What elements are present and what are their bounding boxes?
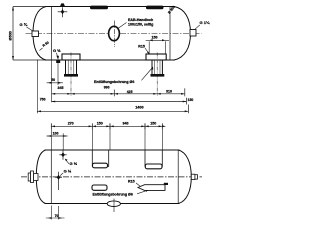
tangent line extension down — [51, 60, 53, 102]
foot slot frame 1 — [92, 150, 108, 166]
foot 2 centerline extension to dim row B — [156, 53, 158, 96]
leader to foot 2 vent hole — [142, 68, 153, 81]
foot 1 centerline extended to dim row B — [70, 53, 72, 96]
foot 1 leg — [66, 60, 77, 74]
svg-text:750: 750 — [40, 97, 46, 101]
svg-text:G 1¼: G 1¼ — [200, 20, 210, 25]
dia500 arrow top — [12, 7, 14, 11]
lower right stub fitting — [191, 174, 197, 179]
leader to right fitting — [195, 25, 200, 29]
leader — [60, 173, 63, 176]
foot 2 base plate — [151, 74, 165, 77]
lower top nozzle diamond — [61, 152, 65, 157]
drain channel slot (pointed) — [138, 185, 165, 191]
svg-text:R15: R15 — [138, 44, 145, 48]
lower top nozzle cross — [59, 150, 66, 160]
lower left tangent line — [50, 150, 52, 204]
svg-text:345: 345 — [58, 86, 64, 90]
dim 150 arrow right — [162, 39, 166, 41]
left fitting socket — [32, 31, 39, 37]
dim row D: 1400 — [37, 110, 188, 112]
svg-text:Ø500: Ø500 — [8, 31, 12, 40]
svg-text:150: 150 — [97, 121, 103, 125]
arrowhead vent hole leader — [151, 67, 153, 70]
dim row B — [52, 93, 185, 95]
svg-text:150: 150 — [188, 98, 194, 102]
foot bolt slot 3 (lower left) — [92, 185, 107, 190]
arrowhead R15 leader — [147, 52, 150, 55]
drain boss extension line — [57, 63, 59, 85]
bottom boss ellipse — [107, 201, 120, 207]
foot 1 base plate — [64, 74, 78, 77]
top nozzle axis cross — [58, 7, 68, 17]
leader — [65, 159, 69, 164]
svg-text:340: 340 — [123, 121, 129, 125]
leader left knuckle — [40, 48, 43, 51]
svg-text:G ½: G ½ — [53, 48, 61, 53]
svg-text:990: 990 — [104, 86, 110, 90]
foot slot frame 2 — [145, 150, 162, 166]
leader — [136, 183, 140, 186]
small mark at drain slot end — [164, 183, 168, 185]
arrowhead to drain boss — [56, 56, 59, 60]
svg-text:G ½: G ½ — [70, 161, 78, 166]
svg-text:R15: R15 — [128, 180, 135, 184]
leader R15 to pad corner — [145, 48, 149, 53]
lower center nozzle diamond — [57, 175, 61, 180]
arrowhead G1/2 leader — [65, 159, 68, 162]
svg-text:425: 425 — [127, 90, 133, 94]
leader handhole label — [118, 23, 127, 29]
svg-text:150: 150 — [150, 121, 156, 125]
lower center nozzle cross — [55, 172, 62, 190]
svg-text:Entlüftungsbohrung Ø6: Entlüftungsbohrung Ø6 — [94, 80, 134, 84]
lifting lug pad 1 (filled) — [90, 6, 108, 10]
foot bolt slot 1 — [93, 163, 108, 168]
svg-text:310: 310 — [166, 89, 172, 93]
lower centerline — [21, 176, 202, 178]
left dished head — [33, 7, 46, 61]
right dished head — [174, 7, 191, 61]
right fitting socket — [190, 30, 196, 37]
dim 150 over foot 2 — [146, 40, 169, 53]
tank shell top line — [45, 6, 175, 8]
handhole vertical centerline — [113, 21, 115, 48]
dim row A: 50 — [47, 82, 64, 84]
svg-text:Entlüftungsbohrung Ø6: Entlüftungsbohrung Ø6 — [93, 192, 133, 196]
svg-text:100x150, seitig: 100x150, seitig — [128, 23, 153, 27]
leader to drain boss — [57, 53, 58, 58]
bottom dim 70 — [46, 206, 65, 220]
lower left flanged fitting — [28, 171, 38, 183]
extension lines lower view top — [51, 124, 162, 151]
bottom boss centerline — [113, 199, 115, 213]
dim row C — [52, 101, 187, 103]
lower tank top line — [45, 149, 180, 151]
svg-text:70: 70 — [55, 214, 59, 218]
svg-text:EAB-Handloch: EAB-Handloch — [128, 18, 153, 22]
dia500 arrow bottom — [12, 56, 14, 60]
handhole ellipse — [109, 26, 120, 40]
lower dim row 2: 100 — [47, 135, 68, 137]
lower right head — [179, 150, 192, 204]
svg-text:G ¾: G ¾ — [20, 22, 28, 27]
svg-text:1400: 1400 — [135, 106, 143, 110]
leader to left fitting — [27, 27, 33, 31]
leader — [137, 190, 148, 194]
svg-text:100: 100 — [53, 131, 59, 135]
tank shell bottom line — [45, 59, 175, 61]
lifting lug pad 2 (filled) — [146, 6, 164, 10]
left head tangent weld line — [51, 7, 53, 61]
lower tank bottom line — [45, 203, 180, 205]
top nozzle cross diamond — [61, 9, 65, 14]
svg-text:G ½: G ½ — [64, 168, 72, 173]
dia 500 dimension — [13, 7, 46, 61]
foot 2 saddle pad — [146, 54, 166, 60]
tank centerline — [26, 33, 202, 35]
dim 150 arrow left — [149, 39, 153, 41]
lower right tangent line — [177, 150, 179, 204]
top nozzle stub — [60, 3, 65, 6]
arrowhead lower vent leader — [146, 190, 149, 192]
svg-text:270: 270 — [68, 121, 74, 125]
foot bolt slot 2 — [145, 164, 162, 169]
lower left head — [36, 150, 45, 204]
drain boss bottom left — [56, 60, 60, 63]
lower dim row 1 — [51, 125, 162, 127]
foot 1 saddle pad — [62, 54, 80, 60]
right head tangent weld line — [169, 7, 171, 61]
foot 2 leg — [152, 60, 162, 74]
svg-text:150: 150 — [152, 35, 158, 39]
